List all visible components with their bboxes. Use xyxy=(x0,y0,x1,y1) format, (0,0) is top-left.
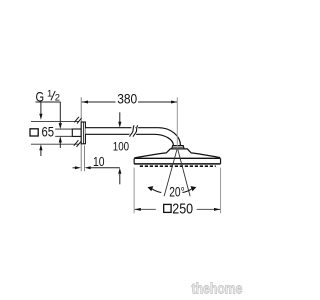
arm connector nut xyxy=(172,146,185,149)
square-65 dimension arrows xyxy=(39,102,42,156)
dimension 380 xyxy=(82,91,178,106)
square-250 right extension line xyxy=(220,168,222,214)
label G 1/2 with underline xyxy=(35,89,60,105)
svg-text:100: 100 xyxy=(113,139,130,153)
shower head rim band xyxy=(134,158,221,164)
20 degree swivel lines xyxy=(164,150,190,197)
dimension square-250 xyxy=(135,201,221,217)
dimension 380 right extension line xyxy=(176,97,178,147)
watermark thehome xyxy=(192,282,243,298)
label square-65 xyxy=(30,124,54,139)
wall hatch marks lower xyxy=(74,140,81,147)
svg-text:65: 65 xyxy=(42,124,55,139)
G1/2 pipe stub extension lines xyxy=(55,129,72,136)
supply nipple behind wall xyxy=(72,129,81,136)
dimension 10 extension ticks xyxy=(84,146,86,172)
dimension 100 xyxy=(113,112,130,184)
nozzle dashes xyxy=(140,165,216,167)
label 20 degrees xyxy=(169,184,185,199)
shower head dome xyxy=(134,149,220,159)
square-250 left extension line xyxy=(133,168,135,214)
wall flange plate xyxy=(81,122,85,144)
20 degree right rotation arrow xyxy=(183,186,197,192)
svg-text:20°: 20° xyxy=(169,184,185,199)
wall plane extension line xyxy=(80,97,82,171)
wall hatch marks upper xyxy=(74,117,81,124)
shower arm top line xyxy=(85,128,180,146)
arm break symbol xyxy=(130,125,138,136)
20 degree left rotation arrow xyxy=(148,186,162,192)
G1/2 pipe stub dimension arrows xyxy=(59,102,62,148)
svg-text:thehome: thehome xyxy=(192,282,243,298)
shower arm tube fill xyxy=(85,128,180,147)
dimension 10 xyxy=(73,154,120,169)
square-65 top extension line xyxy=(31,120,79,122)
shower arm bottom line xyxy=(85,134,173,145)
square-65 bottom extension line xyxy=(31,143,79,145)
svg-text:380: 380 xyxy=(117,91,137,106)
svg-text:250: 250 xyxy=(172,201,193,217)
svg-text:10: 10 xyxy=(93,154,105,169)
